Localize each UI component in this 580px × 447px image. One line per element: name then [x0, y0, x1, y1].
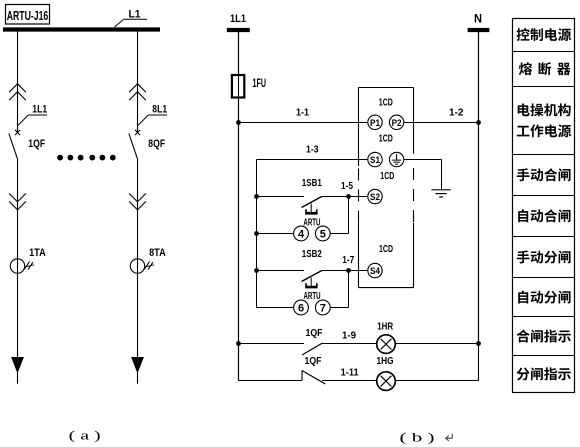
svg-text:4: 4	[298, 229, 305, 241]
svg-text:1SB2: 1SB2	[302, 248, 322, 260]
svg-text:1-5: 1-5	[341, 180, 353, 192]
svg-text:8QF: 8QF	[148, 138, 165, 150]
junction 1-2 on N line	[476, 120, 481, 125]
svg-text:1QF: 1QF	[306, 327, 323, 339]
table row label 熔断器 (fuse)	[519, 62, 571, 75]
lamp 1HG (green, opening indication)	[377, 372, 396, 391]
breaker 8QF	[129, 130, 140, 159]
svg-text:S2: S2	[370, 192, 380, 202]
table row label 合闸指示 (close indication)	[517, 330, 571, 343]
wire N vertical	[478, 32, 480, 344]
wire 1-1 (L to P1)	[239, 122, 368, 124]
drawout contact chevrons 8 (lower)	[129, 193, 146, 210]
drawout contact chevrons 1L1 (upper)	[9, 84, 26, 101]
wire 1-3 (branch to S1)	[257, 159, 368, 161]
terminal S2	[368, 189, 382, 203]
svg-text:( a ): ( a )	[69, 428, 101, 443]
table row label 电操机构/工作电源 (operating mechanism working power)	[517, 103, 571, 137]
svg-text:1CD: 1CD	[380, 170, 394, 182]
junction 1-5	[346, 194, 351, 199]
table row label 自动合闸 (auto close)	[518, 209, 570, 222]
table row label 分闸指示 (open indication)	[517, 367, 571, 380]
terminal 1L1	[227, 13, 250, 30]
wire S2 stub	[349, 196, 368, 198]
table row label 手动分闸 (manual open)	[517, 250, 571, 263]
label 1L1 with leader	[18, 103, 48, 126]
svg-text:( b ): ( b )	[400, 430, 435, 445]
junction QF row on L line	[236, 341, 241, 346]
svg-text:ARTU: ARTU	[303, 217, 320, 228]
svg-text:1FU: 1FU	[253, 78, 267, 90]
ARTU remote-close contact terminals 4 and 5	[257, 197, 349, 241]
svg-text:8L1: 8L1	[152, 103, 167, 115]
terminal S4	[368, 263, 382, 277]
svg-text:6: 6	[298, 303, 304, 315]
wire feeder 1 middle	[17, 159, 19, 273]
wire 1L1 vertical	[238, 32, 240, 381]
table row label 控制电源 (control power)	[517, 28, 572, 41]
svg-text:S1: S1	[370, 155, 380, 165]
current transformer 1TA	[10, 259, 34, 273]
svg-text:1QF: 1QF	[28, 138, 45, 150]
svg-text:L1: L1	[129, 9, 141, 21]
svg-text:S4: S4	[370, 266, 380, 276]
svg-text:1-3: 1-3	[306, 144, 319, 156]
label 8L1 with leader	[138, 103, 168, 126]
junction 4-5 wire on branch	[254, 231, 259, 236]
svg-text:P2: P2	[392, 118, 402, 128]
svg-text:1QF: 1QF	[305, 355, 322, 367]
breaker 1QF	[9, 130, 20, 159]
terminal P1	[368, 115, 382, 129]
svg-text:1TA: 1TA	[29, 247, 46, 259]
svg-text:N: N	[474, 14, 482, 26]
wire feeder 8 lower	[137, 273, 139, 358]
annotation table frame	[513, 19, 575, 393]
svg-text:1CD: 1CD	[379, 96, 393, 108]
device 1CD outline (solid top section, dashed middle, solid bottom)	[359, 88, 414, 288]
paragraph return mark	[446, 434, 453, 441]
wire lamp 1HR to N	[395, 343, 478, 345]
arrow feeder 1	[12, 358, 23, 384]
pushbutton 1SB2 (NO, manual open)	[257, 271, 349, 289]
svg-text:1-7: 1-7	[342, 254, 354, 266]
pushbutton 1SB1 (NO, manual close)	[257, 197, 349, 215]
svg-text:5: 5	[320, 229, 326, 241]
arrow feeder 8	[132, 358, 143, 384]
svg-text:1-2: 1-2	[449, 107, 464, 119]
junction 1-7	[346, 268, 351, 273]
fuse 1FU	[232, 75, 244, 98]
ARTU remote-open contact terminals 6 and 7	[257, 271, 349, 315]
ellipsis dots between feeders	[57, 155, 116, 161]
drawout contact chevrons 8L1 (upper)	[129, 84, 146, 101]
svg-text:1CD: 1CD	[379, 132, 393, 144]
svg-text:1SB1: 1SB1	[302, 177, 322, 189]
terminal P2	[389, 115, 403, 129]
branch wire vertical	[256, 160, 258, 308]
terminal PE ground circle	[389, 152, 403, 166]
lamp 1HR (red, closing indication)	[377, 335, 396, 354]
aux contact 1QF (NC) for opening indication	[239, 371, 377, 385]
terminal N	[468, 14, 490, 31]
svg-text:1CD: 1CD	[379, 243, 393, 255]
terminal S1	[368, 152, 382, 166]
svg-text:ARTU-J16: ARTU-J16	[7, 8, 49, 23]
wire feeder 8 middle	[137, 159, 139, 273]
wire from PE circle to earth	[404, 160, 442, 190]
svg-text:1-9: 1-9	[342, 329, 356, 341]
table row label 自动分闸 (auto open)	[518, 291, 570, 304]
wire feeder 1 lower	[17, 273, 19, 358]
svg-text:1L1: 1L1	[230, 13, 246, 25]
drawout contact chevrons 1 (lower)	[9, 193, 26, 210]
svg-text:ARTU: ARTU	[304, 291, 321, 302]
svg-text:8TA: 8TA	[149, 247, 166, 259]
svg-text:P1: P1	[370, 118, 380, 128]
svg-text:1L1: 1L1	[32, 103, 47, 115]
ground (earth) symbol	[432, 190, 451, 197]
label box ARTU-J16	[6, 5, 50, 25]
junction QF row on N line	[476, 341, 481, 346]
svg-text:7: 7	[320, 303, 326, 315]
table row label 手动合闸 (manual close)	[517, 168, 571, 181]
junction 1SB2 on branch	[254, 268, 259, 273]
aux contact 1QF (NO) for closing indication	[239, 343, 377, 355]
current transformer 8TA	[130, 259, 154, 273]
wire 1-2 (P2 to N)	[404, 122, 479, 124]
label L1 with leader	[115, 9, 147, 27]
svg-text:1-1: 1-1	[296, 106, 309, 118]
wire feeder 1L1 drop from busbar	[17, 31, 19, 132]
wire S4 stub	[349, 270, 368, 272]
wire feeder 8L1 drop from busbar	[137, 31, 139, 132]
svg-text:1HG: 1HG	[377, 355, 394, 367]
junction 1SB1 on branch	[254, 194, 259, 199]
junction 1-1 on L line	[236, 120, 241, 125]
wire lamp 1HG to N drop	[395, 344, 478, 381]
busbar L1	[3, 27, 160, 31]
svg-text:1HR: 1HR	[377, 321, 393, 333]
svg-text:1-11: 1-11	[341, 366, 359, 378]
